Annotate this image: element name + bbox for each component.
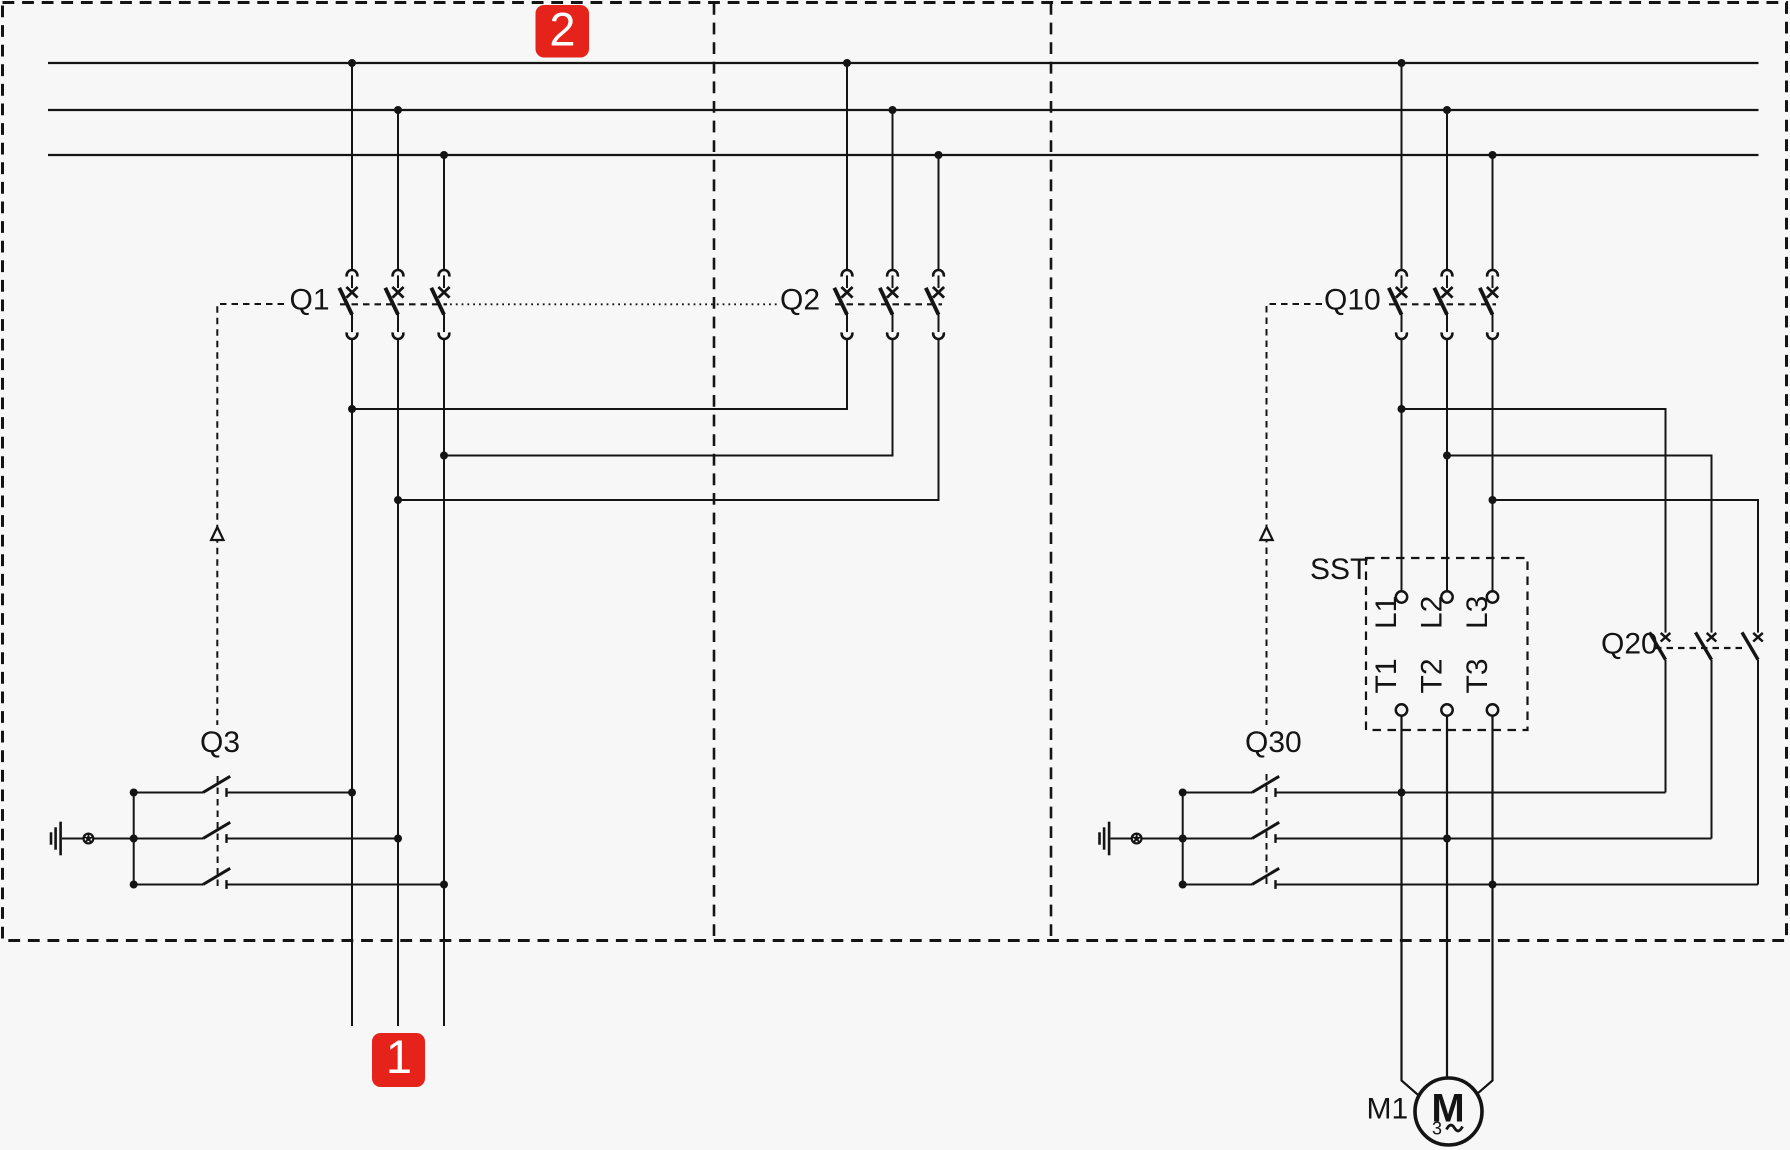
- Q30 pole 3 wire left: [1183, 884, 1252, 886]
- wire Q1 feeder phase 3: [443, 338, 445, 1026]
- wire Q2 pole2 drop: [889, 106, 897, 270]
- Q1 mechanical link: [340, 303, 447, 305]
- interlock dotted line Q1-Q2: [450, 303, 779, 305]
- Q3 pole 3 wire left: [134, 884, 203, 886]
- wire Q1 pole1 drop: [348, 59, 356, 270]
- wire SST T3 to motor: [1476, 716, 1497, 1096]
- Q10 mechanical link: [1389, 303, 1496, 305]
- wire Q20 pole1 down: [1665, 660, 1667, 793]
- svg-text:L1: L1: [1370, 596, 1403, 629]
- Q3 pole 1 wire left: [134, 792, 203, 794]
- panel partition dashed line A: [713, 3, 716, 940]
- wire Q20 pole3 down: [1757, 660, 1759, 885]
- Q3 pole 2 switch: [203, 822, 230, 843]
- Q30 pole 1 wire left: [1183, 792, 1252, 794]
- contactor Q20 pole 2: [1696, 632, 1717, 659]
- Q3 pole 1 wire right: [227, 789, 357, 797]
- bus tag 2 red box: [536, 3, 590, 58]
- svg-text:M1: M1: [1367, 1093, 1409, 1126]
- Q30 ground bus bar: [1179, 789, 1187, 889]
- Q10 leader arrow: [1260, 527, 1272, 540]
- breaker Q2 pole 1: [834, 270, 852, 339]
- Q10 label leader dashed: [1267, 304, 1323, 725]
- svg-text:Q20: Q20: [1601, 628, 1658, 661]
- feeder tag 1 red box: [372, 1030, 425, 1087]
- breaker Q1 pole 3: [431, 270, 449, 339]
- svg-text:T2: T2: [1416, 658, 1449, 693]
- Q3 pole 3 switch: [203, 868, 230, 889]
- svg-text:Q3: Q3: [200, 726, 240, 759]
- contactor Q20 pole 1: [1650, 632, 1671, 659]
- Q30 mechanical link: [1266, 774, 1268, 888]
- tie wire Q1-Q2 phase 1: [348, 338, 847, 413]
- wire Q1 feeder phase 2: [397, 338, 399, 1026]
- wire Q1 pole2 drop: [394, 106, 402, 270]
- wire Q10 pole3 drop: [1489, 151, 1497, 270]
- SST terminal L1: [1396, 591, 1407, 602]
- wire Q10 output 3 to SST L3: [1492, 338, 1494, 591]
- SST terminal T2: [1441, 704, 1452, 715]
- breaker Q1 pole 1: [339, 270, 357, 339]
- svg-text:T3: T3: [1461, 658, 1494, 693]
- Q30 output wire phase 1: [1276, 792, 1666, 794]
- breaker Q10 pole 2: [1434, 270, 1452, 339]
- svg-text:Q2: Q2: [780, 284, 820, 317]
- Q3 pole 3 wire right: [227, 881, 449, 889]
- Q2 mechanical link: [835, 303, 942, 305]
- wire Q1 feeder phase 1: [351, 338, 353, 1026]
- wire Q20 pole2 down: [1711, 660, 1713, 839]
- svg-text:L3: L3: [1461, 596, 1494, 629]
- wire SST T2 to motor: [1443, 716, 1451, 1079]
- Q30 pole 1 switch: [1252, 776, 1279, 797]
- SST terminal T1: [1396, 704, 1407, 715]
- svg-text:3: 3: [1432, 1119, 1442, 1139]
- tie wire Q1-Q2 phase 2: [440, 338, 893, 459]
- earthing switch Q30 ground electrode: [1100, 822, 1110, 856]
- wire Q1 pole3 drop: [440, 151, 448, 270]
- bypass wire to Q20 pole2: [1443, 452, 1712, 633]
- bus line L1: [48, 62, 1759, 64]
- Q3 ground bus bar: [130, 789, 138, 889]
- wire Q10 pole1 drop: [1398, 59, 1406, 270]
- wire Q10 pole2 drop: [1443, 106, 1451, 270]
- SST enclosure dashed box: [1366, 558, 1528, 730]
- svg-text:Q10: Q10: [1324, 284, 1381, 317]
- Q3 pole 2 wire right: [227, 835, 403, 843]
- wire Q2 pole3 drop: [935, 151, 943, 270]
- Q30 pole 3 switch: [1252, 868, 1279, 889]
- panel partition dashed line B: [1050, 3, 1053, 940]
- wire Q10 output 2 to SST L2: [1446, 338, 1448, 591]
- Q30 output wire phase 2: [1276, 838, 1712, 840]
- breaker Q10 pole 1: [1389, 270, 1407, 339]
- bypass wire to Q20 pole3: [1489, 496, 1759, 633]
- Q30 output wire phase 3: [1276, 884, 1759, 886]
- svg-text:2: 2: [549, 3, 575, 56]
- Q20 mechanical link: [1655, 647, 1746, 649]
- wire Q2 pole1 drop: [843, 59, 851, 270]
- svg-text:SST: SST: [1310, 553, 1368, 586]
- Q3 pole 2 wire left: [134, 838, 203, 840]
- breaker Q2 pole 2: [880, 270, 898, 339]
- breaker Q1 pole 2: [385, 270, 403, 339]
- earthing switch Q3 ground electrode: [51, 822, 61, 856]
- contactor Q20 pole 3: [1742, 632, 1763, 659]
- svg-text:T1: T1: [1370, 658, 1403, 693]
- Q30 pole 2 switch: [1252, 822, 1279, 843]
- tie wire Q1-Q2 phase 3: [394, 338, 939, 504]
- Q3 pole 1 switch: [203, 776, 230, 797]
- motor M1 circle: [1415, 1078, 1482, 1145]
- wire SST T1 to motor: [1398, 716, 1419, 1096]
- Q3 PE terminal: [62, 833, 134, 845]
- wire Q10 output 1 to SST L1: [1401, 338, 1403, 591]
- motor 3-phase mark: [1432, 1119, 1463, 1139]
- bus line L2: [48, 109, 1759, 111]
- bypass wire to Q20 pole1: [1398, 405, 1666, 633]
- SST terminal L3: [1487, 591, 1498, 602]
- svg-text:Q1: Q1: [290, 284, 330, 317]
- Q1 label leader dashed: [217, 304, 284, 725]
- SST terminal L2: [1441, 591, 1452, 602]
- bus line L3: [48, 154, 1759, 156]
- SST terminal T3: [1487, 704, 1498, 715]
- breaker Q10 pole 3: [1480, 270, 1498, 339]
- Q1 leader arrow: [211, 527, 223, 540]
- Q3 mechanical link: [217, 776, 219, 891]
- breaker Q2 pole 3: [926, 270, 944, 339]
- svg-text:L2: L2: [1416, 596, 1449, 629]
- svg-text:Q30: Q30: [1245, 726, 1302, 759]
- Q30 PE terminal: [1111, 833, 1183, 845]
- svg-text:1: 1: [386, 1030, 412, 1083]
- Q30 pole 2 wire left: [1183, 838, 1252, 840]
